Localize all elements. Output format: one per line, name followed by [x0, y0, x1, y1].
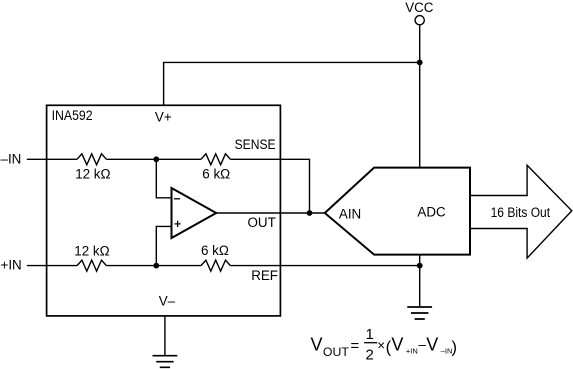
- equation Vout = 1/2 x (V+in - V-in): [311, 326, 458, 364]
- svg-text:6 kΩ: 6 kΩ: [202, 167, 230, 182]
- svg-text:–: –: [418, 337, 426, 352]
- wire REF out: [230, 265, 419, 267]
- svg-text:V+: V+: [155, 110, 172, 125]
- svg-text:+IN: +IN: [1, 257, 22, 272]
- svg-text:×: ×: [377, 338, 385, 353]
- wire VCC vertical to junction: [419, 25, 421, 63]
- svg-text:=: =: [351, 338, 360, 355]
- svg-text:V: V: [311, 335, 323, 355]
- svg-text:+IN: +IN: [406, 346, 418, 355]
- svg-text:AIN: AIN: [339, 206, 361, 221]
- wire +IN input rail: [27, 265, 77, 267]
- junction VCC node: [417, 60, 423, 66]
- wire bottom rail mid: [106, 265, 201, 267]
- resistor 12k bottom: [77, 260, 106, 271]
- svg-text:REF: REF: [251, 268, 278, 283]
- svg-text:): ): [452, 339, 458, 357]
- svg-text:16 Bits Out: 16 Bits Out: [491, 205, 551, 220]
- wire -IN input rail: [27, 158, 77, 160]
- svg-text:V–: V–: [159, 294, 176, 309]
- svg-text:OUT: OUT: [248, 215, 276, 230]
- wire VCC to ADC supply pin: [419, 62, 421, 167]
- svg-text:12 kΩ: 12 kΩ: [74, 244, 109, 259]
- svg-text:–IN: –IN: [1, 152, 22, 167]
- op-amp plus sign: [175, 221, 181, 227]
- wire V- to ground: [164, 316, 166, 356]
- junction OUT-SENSE: [307, 210, 313, 216]
- ADC U2 body: [325, 168, 470, 255]
- svg-text:OUT: OUT: [323, 345, 349, 359]
- junction top node A: [153, 156, 159, 162]
- svg-text:ADC: ADC: [417, 204, 446, 219]
- ground under INA592: [153, 356, 178, 368]
- op-amp box U1 INA592: [47, 105, 281, 316]
- VCC terminal circle: [415, 16, 424, 25]
- wire OUT: [216, 212, 325, 214]
- resistor 6k bottom feedback: [201, 260, 230, 271]
- wire ADC ground pin: [419, 255, 421, 307]
- wire non-inverting input branch: [156, 226, 171, 265]
- svg-text:SENSE: SENSE: [235, 137, 276, 152]
- op-amp minus sign: [174, 198, 180, 200]
- wire top rail mid: [106, 158, 201, 160]
- output bus arrow 16 Bits Out: [469, 165, 571, 258]
- resistor 6k top feedback: [201, 154, 230, 165]
- svg-text:V: V: [391, 335, 403, 355]
- ground under ADC: [407, 307, 432, 319]
- svg-text:6 kΩ: 6 kΩ: [201, 243, 229, 258]
- svg-text:2: 2: [366, 347, 374, 364]
- svg-text:VCC: VCC: [405, 0, 434, 15]
- junction bottom node B: [153, 263, 159, 269]
- wire SENSE out: [230, 159, 309, 213]
- op-amp A1 triangle: [172, 188, 217, 238]
- svg-text:V: V: [426, 335, 438, 355]
- junction REF-ADC ground: [417, 263, 423, 269]
- wire inverting input branch: [156, 159, 171, 198]
- wire VCC horizontal rail to V+: [164, 62, 420, 105]
- resistor 12k top: [77, 154, 106, 165]
- svg-text:INA592: INA592: [52, 108, 93, 123]
- svg-text:1: 1: [366, 326, 374, 343]
- svg-text:12 kΩ: 12 kΩ: [75, 167, 110, 182]
